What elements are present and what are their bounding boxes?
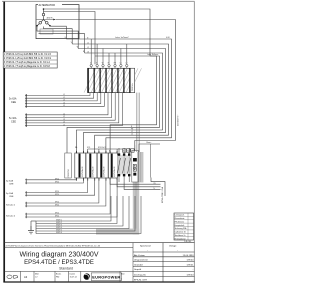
projection symbol [7, 275, 18, 279]
svg-text:16mm²: 16mm² [146, 141, 152, 144]
svg-text:1:2: 1:2 [35, 277, 38, 279]
fuse area labels [75, 146, 111, 153]
border frame right [193, 1, 195, 282]
terminal strip X1 [88, 68, 135, 92]
svg-text:Sicherung 35A: Sicherung 35A [175, 227, 188, 230]
svg-text:0.08: 0.08 [166, 37, 170, 39]
svg-text:CEE: CEE [11, 121, 16, 124]
wire right of busbar [150, 144, 152, 178]
svg-text:GNYE 1: GNYE 1 [56, 220, 62, 222]
svg-text:Geprüft: Geprüft [134, 268, 142, 271]
svg-text:L3: L3 [63, 100, 65, 102]
svg-text:Bearb.: Bearb. [56, 273, 62, 275]
svg-text:Schuko 1: Schuko 1 [6, 205, 16, 207]
RCD unit [132, 151, 139, 182]
svg-text:Blatt: Blatt [121, 272, 125, 275]
svg-text:L1: L1 [63, 94, 65, 96]
wire 3p 32A lines [27, 178, 83, 183]
alternator star winding [37, 9, 50, 26]
wire ground/PE cascade [36, 196, 141, 234]
svg-text:EPS4.4TDE / EPS3.4TDE: EPS4.4TDE / EPS3.4TDE [24, 260, 94, 266]
EUROPOWER logo [84, 273, 90, 279]
svg-text:CEE: CEE [9, 196, 14, 198]
alternator excitation arrow [37, 19, 56, 21]
svg-text:3p 32A: 3p 32A [6, 179, 13, 182]
svg-text:Leitungssch.: Leitungssch. [175, 214, 186, 217]
svg-text:1 NYM-OL 12,5 sq 4x16 BK4 5/8: 1 NYM-OL 12,5 sq 4x16 BK4 5/8 zu Kl. X1:… [4, 54, 52, 56]
svg-text:RESERVE: RESERVE [68, 168, 70, 177]
svg-text:SP14: SP14 [55, 213, 59, 215]
svg-text:Datum: Datum [70, 272, 76, 275]
svg-text:CEE: CEE [11, 101, 16, 104]
wire top tap [44, 12, 96, 65]
spare rect [65, 153, 72, 178]
svg-text:FB2: FB2 [56, 277, 59, 279]
fuse unit F2 [86, 153, 97, 178]
wire fuse feeds top [88, 149, 134, 153]
terminal circles [90, 64, 128, 66]
svg-text:EUROPOWER: EUROPOWER [92, 275, 120, 280]
svg-text:PE-Schiene: PE-Schiene [175, 221, 185, 223]
svg-text:Leiter 1a/5mm²: Leiter 1a/5mm² [115, 36, 129, 39]
svg-text:4 NYM-OL 7,5 sq/6 sq Magenta z: 4 NYM-OL 7,5 sq/6 sq Magenta zu Kl. X2:5… [4, 65, 51, 68]
svg-text:L2: L2 [63, 97, 65, 99]
wire breaker outputs [110, 178, 165, 197]
svg-text:GNYE 2: GNYE 2 [56, 222, 62, 224]
border frame bottom [3, 281, 194, 283]
svg-text:L1: L1 [131, 131, 133, 133]
breaker pole Q1 [117, 148, 120, 182]
svg-text:L4: L4 [63, 102, 65, 104]
svg-text:L4: L4 [63, 122, 65, 124]
wire PE/N strip to busbar [136, 93, 138, 152]
svg-text:3p 16A: 3p 16A [6, 192, 13, 195]
svg-text:Klemmleiste: Klemmleiste [175, 217, 185, 220]
connector 3p 32A [25, 179, 27, 185]
svg-text:L1: L1 [63, 114, 65, 116]
svg-text:L3: L3 [63, 119, 65, 121]
breaker pole Q2 [123, 148, 126, 182]
wire aux cascade 2 [95, 56, 157, 153]
terminal stubs [91, 67, 127, 69]
wire 3p 16A lines [27, 178, 95, 195]
svg-text:1-EPS/5A4-N: 1-EPS/5A4-N [81, 166, 84, 177]
wire alternator phase outputs cascade [37, 26, 85, 53]
svg-text:DIN 41: DIN 41 [187, 264, 194, 266]
neutral boxes [123, 149, 135, 152]
svg-text:L2: L2 [131, 134, 133, 136]
connector 5x32A ticks [25, 115, 27, 126]
connector 5x32A CEE bracket [25, 113, 27, 127]
svg-text:L3: L3 [87, 51, 89, 53]
breaker pole Q3 [128, 148, 131, 182]
svg-text:3 NYM-OL 7,5 sq/6 sq Magenta z: 3 NYM-OL 7,5 sq/6 sq Magenta zu Kl. X2:1… [4, 61, 51, 64]
svg-text:5x 32A: 5x 32A [9, 117, 17, 120]
svg-text:ALTERNATOR: ALTERNATOR [39, 4, 56, 7]
svg-text:PE: PE [131, 128, 133, 130]
busbar inner line [139, 152, 141, 182]
svg-text:Hauptschalt.: Hauptschalt. [175, 224, 185, 227]
svg-text:Speicherort: Speicherort [140, 245, 151, 248]
fuse unit F4 [108, 153, 117, 178]
connector Schuko 2 [25, 213, 27, 218]
blatt cells [121, 272, 125, 280]
svg-text:1-EPS/5A4-N: 1-EPS/5A4-N [92, 166, 95, 177]
wire star point to top bus [44, 9, 151, 56]
svg-text:L2: L2 [87, 47, 89, 49]
svg-text:d:\7545\Pläne\umgezeichnete Si: d:\7545\Pläne\umgezeichnete Siemens Plän… [6, 244, 101, 247]
terminal labels [90, 62, 127, 64]
svg-text:Leiter 1b/6mm²: Leiter 1b/6mm² [147, 53, 159, 56]
svg-text:NYM 5x2.5: NYM 5x2.5 [98, 147, 106, 149]
bus L1 [66, 39, 171, 153]
svg-text:DIN 40: DIN 40 [187, 260, 194, 262]
svg-text:5x 63A: 5x 63A [9, 98, 17, 101]
line tags [55, 213, 59, 218]
svg-text:Zeichngs-Nr.: Zeichngs-Nr. [134, 275, 147, 277]
fuse terminal ticks [76, 151, 117, 181]
ground group bus [35, 221, 37, 234]
title cell verticals [20, 243, 133, 282]
svg-text:D-Nr 044: D-Nr 044 [184, 241, 191, 243]
svg-text:EPS-Nr. 0377: EPS-Nr. 0377 [134, 280, 148, 282]
bus N [76, 53, 162, 153]
svg-text:L5: L5 [63, 124, 65, 126]
svg-text:15.07.14: 15.07.14 [70, 277, 77, 279]
terminal strip hatch [84, 68, 142, 92]
svg-text:EPS4.4TDE / 25A: EPS4.4TDE / 25A [161, 186, 164, 203]
svg-text:SP14: SP14 [55, 191, 59, 193]
svg-text:SP24: SP24 [55, 216, 59, 218]
cable legend table [3, 52, 57, 68]
svg-text:SP14: SP14 [55, 202, 59, 204]
svg-text:SYS: SYS [87, 147, 90, 149]
line tags [55, 202, 59, 207]
svg-text:PE: PE [154, 183, 156, 185]
connector 3p 16A [25, 191, 27, 196]
wire sense line to right cascade [56, 20, 176, 151]
svg-text:Steckdose 2x: Steckdose 2x [175, 234, 186, 237]
svg-text:Wiring diagram 230/400V: Wiring diagram 230/400V [20, 251, 99, 258]
svg-text:SP24: SP24 [55, 182, 59, 184]
svg-text:Abt.-Datum: Abt.-Datum [134, 254, 145, 257]
svg-text:Umgezeichnet: Umgezeichnet [134, 259, 148, 262]
PE/N busbar vertical upper (gray) [137, 152, 143, 183]
winding terminal tags [65, 37, 85, 53]
bus L3 [78, 49, 165, 154]
svg-text:A3: A3 [24, 275, 28, 279]
bus L2 [72, 44, 168, 153]
title right table text [134, 245, 194, 282]
svg-text:2 NYM-OL 1,25 sq 4x10 BK4 5/8: 2 NYM-OL 1,25 sq 4x10 BK4 5/8 zu Kl. X1:… [4, 58, 52, 60]
alternator G1 box [36, 5, 79, 39]
svg-text:Standard: Standard [59, 267, 73, 271]
svg-text:C-Automat 16: C-Automat 16 [175, 231, 186, 234]
svg-text:1: 1 [121, 279, 122, 281]
line tags [55, 179, 59, 184]
PE/N busbar vertical lower (gray) [133, 182, 139, 235]
svg-text:Schuko 2: Schuko 2 [6, 216, 16, 218]
alternator winding terminal dots [36, 8, 51, 26]
title cells row line [4, 270, 133, 272]
terminal strip PE cell [130, 68, 134, 92]
PE line tags [56, 220, 62, 235]
svg-text:Vorlage: Vorlage [169, 246, 177, 248]
legend table bottom right [174, 213, 194, 240]
svg-text:GNYE 4: GNYE 4 [56, 227, 62, 229]
svg-text:L5: L5 [63, 105, 65, 107]
title right table rows [133, 243, 194, 282]
connector 5x63A CEE bracket [25, 94, 27, 108]
svg-text:CEE: CEE [9, 184, 14, 186]
svg-text:SP14: SP14 [55, 179, 59, 181]
breaker gray backdrop [117, 155, 131, 174]
busbar feed wire [139, 144, 160, 152]
line tags 32A [63, 114, 65, 127]
ground feed stub [30, 221, 32, 231]
svg-text:15.04.1993: 15.04.1993 [183, 255, 195, 257]
alternator G1 label [38, 3, 62, 6]
fuse unit F3 [97, 153, 108, 178]
svg-text:400/230V 3~: 400/230V 3~ [178, 114, 180, 126]
svg-text:Geändert: Geändert [134, 263, 143, 266]
svg-text:SP24: SP24 [55, 205, 59, 207]
svg-text:GNYE 6: GNYE 6 [56, 232, 62, 234]
svg-text:GNYE 5: GNYE 5 [56, 230, 62, 232]
line tags [55, 191, 59, 196]
svg-text:SP24: SP24 [55, 194, 59, 196]
fuse unit F1 [75, 153, 86, 178]
svg-text:1-EPS/5A4-N: 1-EPS/5A4-N [113, 166, 116, 177]
title block separator [4, 242, 194, 244]
border frame left [3, 2, 5, 283]
svg-text:PE/N Sch.: PE/N Sch. [132, 83, 134, 91]
wire Schuko 2 lines [27, 178, 117, 217]
PE/N busbar horizontal arm (gray) [96, 229, 139, 235]
exciter box [40, 29, 53, 34]
wire aux cascade 1 [67, 56, 160, 153]
svg-text:L1: L1 [87, 42, 89, 44]
connector Schuko 1 [25, 202, 27, 207]
small cells text [35, 272, 77, 278]
svg-text:1-EPS/5A4-N: 1-EPS/5A4-N [103, 166, 106, 177]
border frame top [2, 0, 195, 2]
svg-text:GNYE 3: GNYE 3 [56, 225, 62, 227]
connector 5x63A ticks [25, 96, 27, 107]
wire terminal strip output cascade [27, 93, 122, 126]
terminal strip separators [88, 68, 130, 92]
wire bus to terminal drops [91, 39, 127, 64]
svg-text:L2: L2 [63, 116, 65, 118]
line tags 63A [63, 94, 65, 107]
ground symbol [28, 226, 34, 234]
wire Schuko 1 lines [27, 178, 106, 206]
breaker output labels [154, 183, 156, 190]
svg-text:DIN 44: DIN 44 [187, 275, 194, 277]
